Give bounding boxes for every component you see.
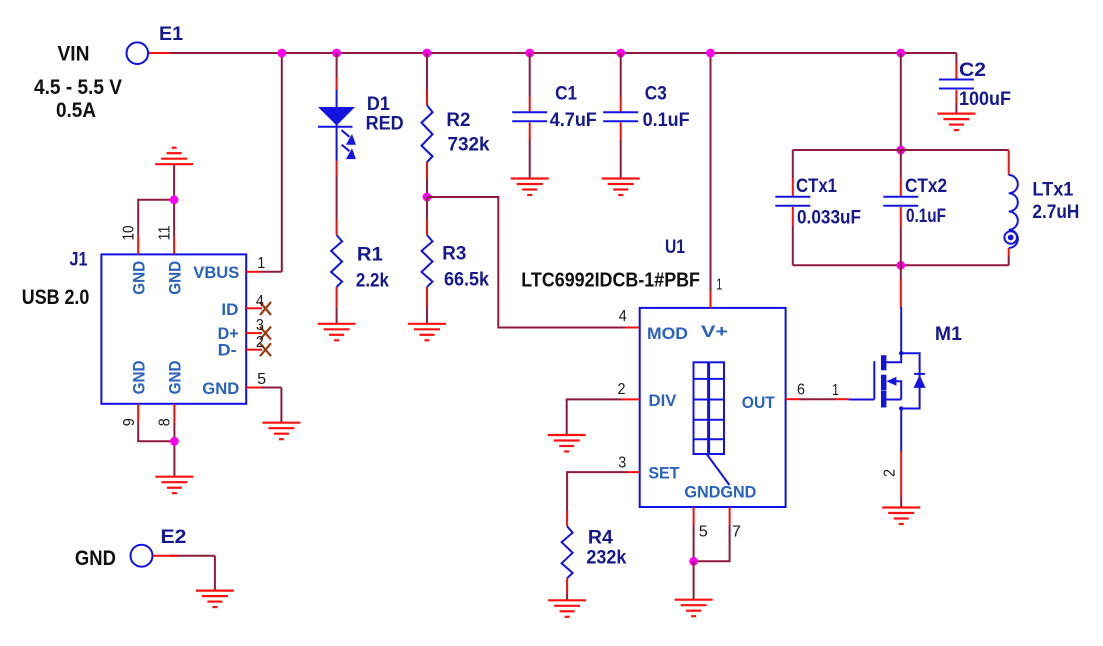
svg-text:232k: 232k — [586, 548, 626, 569]
svg-text:5: 5 — [257, 371, 266, 388]
svg-text:0.5A: 0.5A — [56, 99, 96, 122]
svg-text:R3: R3 — [442, 244, 466, 265]
svg-text:R4: R4 — [588, 528, 613, 549]
svg-text:CTx1: CTx1 — [796, 176, 837, 197]
svg-text:GND: GND — [129, 360, 148, 394]
svg-text:GND: GND — [166, 261, 185, 295]
svg-text:C2: C2 — [959, 60, 986, 81]
svg-text:CTx2: CTx2 — [905, 176, 947, 197]
svg-text:1: 1 — [257, 255, 265, 272]
svg-text:R2: R2 — [446, 110, 470, 131]
svg-text:11: 11 — [156, 225, 173, 240]
svg-text:3: 3 — [618, 455, 626, 472]
svg-text:RED: RED — [366, 114, 404, 135]
svg-text:E2: E2 — [161, 527, 187, 548]
svg-text:3: 3 — [256, 317, 264, 334]
svg-text:GND: GND — [202, 379, 239, 398]
svg-text:2.2k: 2.2k — [356, 271, 389, 292]
svg-text:MOD: MOD — [647, 324, 688, 343]
svg-text:100uF: 100uF — [959, 89, 1011, 110]
svg-text:1: 1 — [832, 382, 839, 399]
svg-text:0.033uF: 0.033uF — [797, 208, 861, 229]
svg-text:2: 2 — [256, 334, 264, 351]
svg-text:U1: U1 — [665, 237, 685, 258]
svg-text:D-: D- — [218, 341, 237, 360]
svg-text:DIV: DIV — [649, 391, 678, 410]
svg-text:4: 4 — [619, 308, 627, 325]
svg-text:SET: SET — [648, 464, 680, 483]
svg-text:732k: 732k — [448, 134, 490, 155]
svg-text:66.5k: 66.5k — [444, 270, 489, 291]
svg-text:GNDGND: GNDGND — [684, 482, 756, 501]
svg-text:R1: R1 — [357, 245, 383, 266]
svg-text:8: 8 — [156, 418, 173, 426]
svg-text:VIN: VIN — [58, 43, 90, 66]
svg-text:C1: C1 — [555, 84, 577, 105]
svg-text:LTC6992IDCB-1#PBF: LTC6992IDCB-1#PBF — [521, 270, 700, 292]
svg-text:10: 10 — [121, 225, 138, 240]
svg-text:4: 4 — [256, 293, 264, 310]
svg-text:2: 2 — [881, 469, 898, 477]
svg-text:ID: ID — [221, 300, 238, 319]
svg-text:GND: GND — [166, 360, 185, 394]
svg-text:9: 9 — [121, 418, 138, 426]
svg-text:4.5 - 5.5 V: 4.5 - 5.5 V — [34, 76, 122, 99]
svg-text:USB 2.0: USB 2.0 — [22, 286, 90, 309]
svg-text:2: 2 — [618, 381, 626, 398]
svg-text:E1: E1 — [159, 24, 183, 45]
svg-text:J1: J1 — [70, 249, 88, 270]
svg-text:LTx1: LTx1 — [1032, 180, 1073, 201]
svg-text:D1: D1 — [367, 94, 390, 115]
svg-text:7: 7 — [732, 523, 741, 540]
svg-text:5: 5 — [699, 523, 708, 540]
svg-text:GND: GND — [129, 261, 148, 295]
svg-text:0.1uF: 0.1uF — [643, 110, 690, 131]
svg-text:V+: V+ — [701, 322, 728, 341]
svg-text:C3: C3 — [645, 84, 667, 105]
svg-text:6: 6 — [797, 382, 805, 399]
svg-text:2.7uH: 2.7uH — [1032, 202, 1079, 223]
svg-text:GND: GND — [75, 547, 116, 570]
svg-text:VBUS: VBUS — [193, 263, 239, 282]
svg-text:0.1uF: 0.1uF — [906, 206, 946, 227]
svg-text:4.7uF: 4.7uF — [550, 110, 597, 131]
svg-text:OUT: OUT — [742, 393, 776, 412]
svg-text:1: 1 — [716, 277, 722, 294]
svg-text:M1: M1 — [935, 324, 962, 345]
